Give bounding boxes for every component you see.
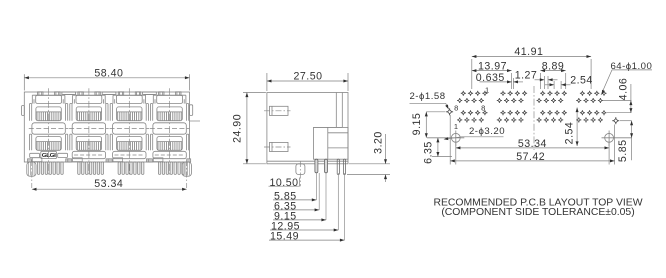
svg-text:1: 1	[454, 122, 459, 131]
svg-text:0.635: 0.635	[476, 72, 505, 84]
svg-text:8: 8	[481, 103, 486, 112]
svg-text:5.85: 5.85	[617, 139, 629, 162]
svg-text:13.97: 13.97	[478, 61, 507, 73]
svg-text:1: 1	[485, 85, 490, 94]
svg-text:4.06: 4.06	[617, 78, 629, 101]
svg-text:8: 8	[454, 103, 459, 112]
svg-text:2.54: 2.54	[570, 74, 593, 86]
svg-text:6.35: 6.35	[423, 141, 435, 164]
svg-text:57.42: 57.42	[516, 151, 545, 163]
svg-text:10.50: 10.50	[270, 177, 299, 189]
svg-text:53.34: 53.34	[94, 178, 123, 190]
svg-text:41.91: 41.91	[514, 46, 543, 58]
svg-text:53.34: 53.34	[518, 138, 547, 150]
svg-text:2-ϕ1.58: 2-ϕ1.58	[409, 91, 445, 102]
svg-text:15.49: 15.49	[270, 231, 299, 243]
svg-text:3.20: 3.20	[372, 131, 384, 154]
svg-text:27.50: 27.50	[293, 71, 322, 83]
svg-text:(COMPONENT SIDE TOLERANCE±0.05: (COMPONENT SIDE TOLERANCE±0.05)	[441, 207, 634, 218]
svg-text:8.89: 8.89	[542, 61, 565, 73]
svg-text:24.90: 24.90	[232, 114, 244, 143]
svg-text:58.40: 58.40	[94, 68, 123, 80]
svg-text:2-ϕ3.20: 2-ϕ3.20	[469, 126, 505, 137]
svg-text:1.27: 1.27	[515, 70, 538, 82]
svg-text:2.54: 2.54	[563, 122, 575, 145]
svg-text:9.15: 9.15	[411, 113, 423, 136]
svg-text:GLGI: GLGI	[42, 152, 57, 159]
